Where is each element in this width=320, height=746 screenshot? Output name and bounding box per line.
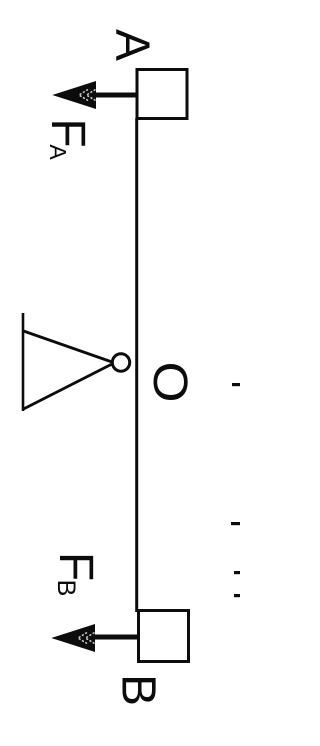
svg-text:F: F [49, 552, 102, 581]
svg-text:F: F [41, 118, 94, 147]
svg-text:B: B [112, 674, 165, 706]
svg-text:A: A [45, 144, 71, 160]
svg-text:O: O [144, 361, 198, 402]
svg-text:B: B [52, 580, 80, 597]
svg-text:A: A [106, 29, 159, 61]
